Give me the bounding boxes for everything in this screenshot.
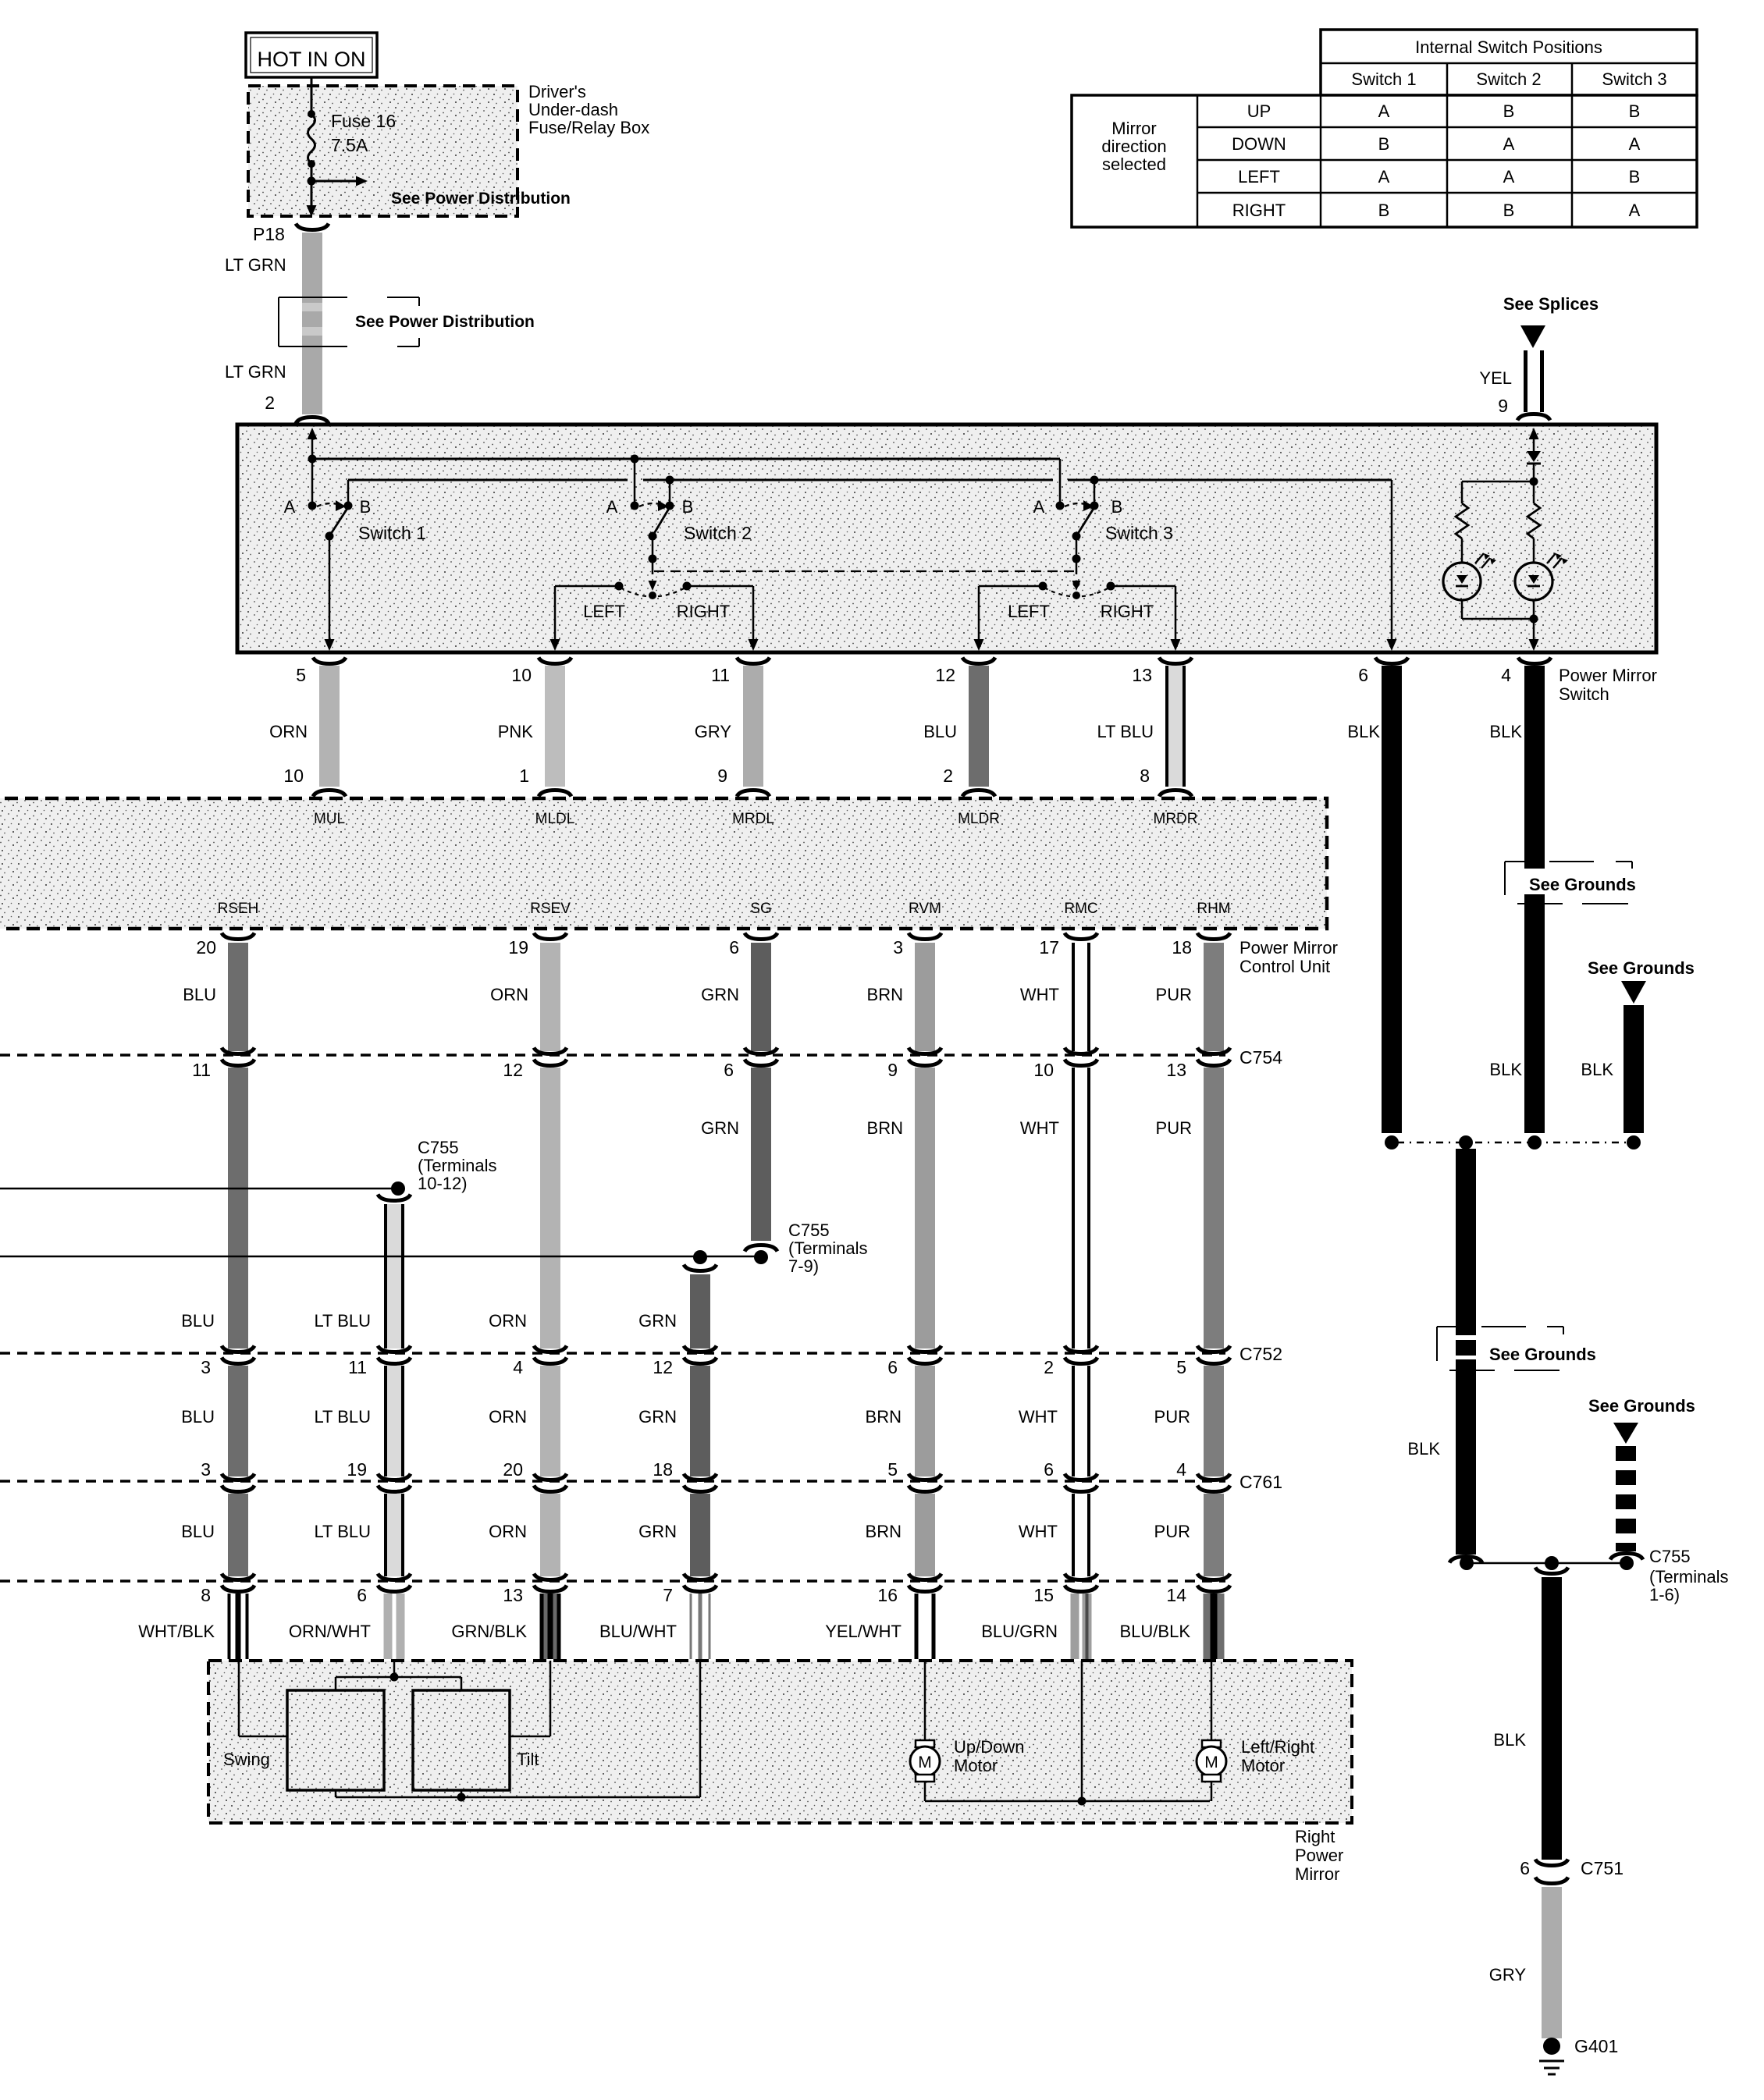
svg-text:DOWN: DOWN xyxy=(1232,134,1286,154)
svg-text:Switch 2: Switch 2 xyxy=(684,523,752,543)
node bridge xyxy=(390,1673,399,1682)
svg-text:A: A xyxy=(284,497,296,517)
connector symbol ground lead start xyxy=(1535,1568,1568,1574)
svg-text:GRY: GRY xyxy=(695,722,732,741)
wire ORN segment C761 to mirror connector xyxy=(540,1494,560,1576)
connector C754 lower symbol at 305 xyxy=(222,1060,254,1066)
wire GRN control unit output pin 6 xyxy=(751,943,771,1051)
svg-text:Internal Switch Positions: Internal Switch Positions xyxy=(1415,37,1602,57)
node below fuse xyxy=(308,160,315,168)
switch 1 contact B xyxy=(344,502,353,510)
svg-text:18: 18 xyxy=(653,1459,673,1480)
svg-text:Driver's: Driver's xyxy=(528,82,586,101)
wire PNK pin 10 to control unit pin 1 xyxy=(545,666,565,787)
wire PUR segment C752 to C761 xyxy=(1204,1366,1224,1476)
connector C752 lower symbol at 1185 xyxy=(909,1358,941,1364)
resistor R2 xyxy=(1533,481,1535,503)
up/down motor M1 xyxy=(916,1740,934,1747)
pin 12 connector symbol xyxy=(962,658,995,664)
switch 2 contact A xyxy=(631,502,639,510)
svg-text:BLK: BLK xyxy=(1347,722,1380,741)
mirror connector upper symbol at 705 xyxy=(534,1574,567,1580)
svg-text:13: 13 xyxy=(1132,665,1152,685)
mirror connector lower symbol at 1555 xyxy=(1197,1586,1230,1592)
connector C754 upper symbol at 705 xyxy=(534,1048,567,1054)
connector C761 lower symbol at 305 xyxy=(222,1486,254,1492)
svg-text:BLU: BLU xyxy=(181,1311,215,1331)
control unit pin 19 connector symbol xyxy=(534,933,567,940)
svg-text:Mirror: Mirror xyxy=(1111,119,1156,138)
connector symbol P18 xyxy=(296,224,329,230)
svg-text:Tilt: Tilt xyxy=(517,1750,539,1769)
svg-text:14: 14 xyxy=(1166,1585,1186,1605)
wire WHT/BLK into right power mirror xyxy=(228,1594,249,1659)
connector C754 upper symbol at 975 xyxy=(745,1048,777,1054)
wire BLK dashed from ground 4 xyxy=(1616,1446,1636,1461)
mirror connector upper symbol at 1185 xyxy=(909,1574,941,1580)
svg-text:Switch 3: Switch 3 xyxy=(1602,69,1666,89)
svg-text:10-12): 10-12) xyxy=(418,1174,468,1193)
svg-text:18: 18 xyxy=(1172,937,1192,958)
connector C752 lower symbol at 705 xyxy=(534,1358,567,1364)
HOT IN ON power label box xyxy=(246,33,377,77)
connector symbol control unit pin 1 xyxy=(539,791,571,797)
svg-text:12: 12 xyxy=(503,1060,523,1080)
svg-text:RIGHT: RIGHT xyxy=(1101,602,1154,621)
switch 2 wiper arrow xyxy=(649,581,657,591)
svg-text:9: 9 xyxy=(1498,396,1508,416)
svg-text:A: A xyxy=(1378,101,1390,121)
connector C752 upper symbol at 705 xyxy=(534,1346,567,1352)
connector C752 lower symbol at 305 xyxy=(222,1358,254,1364)
node C755 10-12 xyxy=(391,1181,405,1196)
wire lamp return to pin 4 xyxy=(1533,600,1535,641)
svg-text:7: 7 xyxy=(663,1585,673,1605)
svg-text:6: 6 xyxy=(724,1060,734,1080)
svg-text:15: 15 xyxy=(1033,1585,1054,1605)
svg-text:See Power Distribution: See Power Distribution xyxy=(355,313,535,331)
svg-text:5: 5 xyxy=(296,665,306,685)
wire BLU/BLK into right power mirror xyxy=(1204,1594,1225,1659)
svg-text:4: 4 xyxy=(1176,1459,1186,1480)
wire ORN/WHT inside mirror to pot bridge xyxy=(393,1661,396,1677)
svg-text:6: 6 xyxy=(357,1585,367,1605)
LED right emission arrows xyxy=(1547,553,1562,568)
svg-text:Motor: Motor xyxy=(1241,1756,1285,1775)
svg-text:UP: UP xyxy=(1247,101,1271,121)
entry arrow pin 2 xyxy=(308,428,318,439)
wire LT BLU from C755 10-12 xyxy=(384,1204,404,1348)
svg-text:YEL/WHT: YEL/WHT xyxy=(825,1622,902,1641)
svg-text:See Power Distribution: See Power Distribution xyxy=(391,190,571,208)
pot top bridge wire xyxy=(336,1676,461,1679)
control unit pin 18 connector symbol xyxy=(1197,933,1230,940)
connector C752 lower symbol at 1385 xyxy=(1065,1358,1097,1364)
wire to switch2 A xyxy=(634,459,636,503)
diode D1 xyxy=(1527,451,1541,462)
wire WHT segment C752 to C761 xyxy=(1072,1366,1090,1476)
svg-text:C755: C755 xyxy=(418,1138,459,1157)
svg-text:GRN: GRN xyxy=(638,1407,677,1427)
tilt potentiometer xyxy=(413,1690,510,1790)
bus line from pin 2 xyxy=(312,458,1060,460)
connector C751 upper symbol xyxy=(1535,1860,1568,1866)
svg-text:A: A xyxy=(1629,201,1641,220)
switch 3 RIGHT wire to pin 13 xyxy=(1111,585,1175,588)
svg-text:WHT: WHT xyxy=(1019,1522,1058,1541)
LED left emission arrows xyxy=(1475,553,1490,568)
connector C752 upper symbol at 897 xyxy=(684,1346,717,1352)
connector line C761 xyxy=(0,1480,1225,1482)
swing potentiometer xyxy=(287,1690,384,1790)
svg-text:20: 20 xyxy=(196,937,216,958)
svg-text:BLK: BLK xyxy=(1581,1060,1613,1079)
Driver's Under-dash Fuse/Relay Box (dashed) xyxy=(248,86,517,216)
svg-text:4: 4 xyxy=(513,1357,523,1377)
LED lamp left xyxy=(1443,563,1481,600)
wire PUR segment C754 to C752 xyxy=(1204,1068,1224,1348)
svg-text:BLK: BLK xyxy=(1493,1730,1526,1750)
switch 2 RIGHT wire to pin 11 xyxy=(687,585,753,588)
svg-text:GRN/BLK: GRN/BLK xyxy=(451,1622,527,1641)
wire PUR control unit output pin 18 xyxy=(1204,943,1224,1051)
mirror connector lower symbol at 705 xyxy=(534,1586,567,1592)
ground G401 terminal xyxy=(1543,2038,1560,2055)
svg-text:3: 3 xyxy=(201,1357,211,1377)
wire PUR segment C761 to mirror connector xyxy=(1204,1494,1224,1576)
svg-text:LT GRN: LT GRN xyxy=(225,362,286,382)
connector symbol control unit pin 9 xyxy=(737,791,770,797)
svg-text:6: 6 xyxy=(729,937,739,958)
svg-text:LT BLU: LT BLU xyxy=(1097,722,1154,741)
wire GRN/BLK inside mirror to tilt pot xyxy=(549,1661,552,1736)
splice line C755 terminals 10-12 xyxy=(0,1188,398,1190)
svg-text:See Grounds: See Grounds xyxy=(1529,875,1636,894)
svg-text:19: 19 xyxy=(508,937,528,958)
svg-text:3: 3 xyxy=(893,937,903,958)
node new GRN wire xyxy=(693,1250,707,1264)
svg-text:A: A xyxy=(1503,167,1515,187)
svg-text:6: 6 xyxy=(1044,1459,1054,1480)
svg-text:See Grounds: See Grounds xyxy=(1588,958,1695,978)
svg-text:Power Mirror: Power Mirror xyxy=(1559,666,1657,685)
svg-text:YEL: YEL xyxy=(1479,368,1512,388)
switch 1 contact A xyxy=(308,502,317,510)
connector C761 lower symbol at 1385 xyxy=(1065,1486,1097,1492)
connector C751 lower symbol xyxy=(1535,1878,1568,1884)
wire GRY pin 11 to control unit pin 9 xyxy=(743,666,763,787)
connector C754 lower symbol SG wire xyxy=(745,1060,777,1066)
node switch3 B feed xyxy=(1090,476,1099,485)
svg-text:BRN: BRN xyxy=(866,1407,902,1427)
switch 1 output wire to pin 5 xyxy=(329,536,331,641)
ground arrow symbol 2 xyxy=(1621,981,1646,1004)
svg-text:20: 20 xyxy=(503,1459,523,1480)
svg-text:See Splices: See Splices xyxy=(1503,294,1599,314)
node C755 1-6 mid xyxy=(1545,1556,1559,1570)
wire from HOT IN ON into fuse box xyxy=(311,77,313,114)
connector C761 upper symbol at 1385 xyxy=(1065,1474,1097,1480)
wire BLU/BLK inside mirror to left/right motor xyxy=(1211,1661,1213,1742)
splice line C755 terminals 7-9 xyxy=(0,1256,761,1258)
svg-text:Switch: Switch xyxy=(1559,684,1609,704)
node C755 1-6 right xyxy=(1620,1556,1634,1570)
splice line C755 terminals 1-6 xyxy=(1467,1562,1627,1565)
svg-text:BLU: BLU xyxy=(181,1522,215,1541)
svg-text:A: A xyxy=(606,497,618,517)
svg-text:8: 8 xyxy=(201,1585,211,1605)
svg-text:M: M xyxy=(918,1754,932,1771)
svg-text:ORN/WHT: ORN/WHT xyxy=(289,1622,371,1641)
wire ORN segment C754 to C752 xyxy=(540,1068,560,1348)
node switch2 A feed xyxy=(631,455,639,464)
connector C752 upper symbol at 1185 xyxy=(909,1346,941,1352)
svg-text:10: 10 xyxy=(511,665,532,685)
svg-text:MRDR: MRDR xyxy=(1154,811,1198,827)
svg-text:B: B xyxy=(1629,101,1641,121)
svg-text:13: 13 xyxy=(503,1585,523,1605)
connector C752 upper symbol at 1385 xyxy=(1065,1346,1097,1352)
svg-text:GRN: GRN xyxy=(638,1522,677,1541)
connector C754 upper symbol at 305 xyxy=(222,1048,254,1054)
wire GRN SG segment to C755 terminals 7-9 xyxy=(751,1068,771,1241)
svg-text:6: 6 xyxy=(887,1357,898,1377)
connector line C754 xyxy=(0,1054,1225,1056)
svg-text:BLU: BLU xyxy=(923,722,957,741)
svg-text:M: M xyxy=(1204,1754,1218,1771)
connector C752 lower symbol at 897 xyxy=(684,1358,717,1364)
wire BLU/GRN inside mirror to motor return xyxy=(1081,1661,1083,1801)
node switch2 B feed xyxy=(666,476,674,485)
svg-text:9: 9 xyxy=(717,766,727,786)
connector symbol GRN wire end xyxy=(745,1245,777,1252)
pin 13 connector symbol xyxy=(1159,658,1192,664)
switch 3 wiper arrow xyxy=(1072,581,1081,591)
svg-text:See Grounds: See Grounds xyxy=(1588,1396,1695,1416)
connector C752 lower symbol at 505 xyxy=(378,1358,411,1364)
svg-text:2: 2 xyxy=(943,766,953,786)
wire BRN segment C761 to mirror connector xyxy=(915,1494,935,1576)
pin 10 connector symbol xyxy=(539,658,571,664)
switch 2 LEFT wire to pin 10 xyxy=(555,585,619,588)
svg-text:10: 10 xyxy=(283,766,304,786)
wire WHT/BLK inside mirror to swing pot xyxy=(238,1661,240,1736)
wire to switch1 A xyxy=(311,459,314,503)
pin 4 connector symbol xyxy=(1518,658,1551,664)
wire BLU segment C752 to C761 xyxy=(228,1366,248,1476)
wire LTBLU segment C761 to mirror connector xyxy=(384,1494,404,1576)
svg-text:(Terminals: (Terminals xyxy=(1649,1567,1728,1587)
wire BLU segment C754 to C752 xyxy=(228,1068,248,1348)
wire ORN pin 5 to control unit pin 10 xyxy=(319,666,340,787)
svg-text:2: 2 xyxy=(265,393,275,413)
svg-text:5: 5 xyxy=(1176,1357,1186,1377)
svg-text:C754: C754 xyxy=(1239,1047,1282,1068)
node SG wire end xyxy=(754,1250,768,1264)
connector C754 lower symbol at 1555 xyxy=(1197,1060,1230,1066)
svg-text:SG: SG xyxy=(750,901,771,917)
connector C761 upper symbol at 705 xyxy=(534,1474,567,1480)
svg-text:B: B xyxy=(1503,101,1515,121)
svg-text:1: 1 xyxy=(519,766,529,786)
svg-text:BLU/BLK: BLU/BLK xyxy=(1120,1622,1191,1641)
svg-text:A: A xyxy=(1033,497,1045,517)
wire BLK pin 4 ground lead xyxy=(1524,666,1545,1133)
fuse F16 7.5A element xyxy=(308,114,315,164)
mirror connector lower symbol at 505 xyxy=(378,1586,411,1592)
svg-text:16: 16 xyxy=(877,1585,898,1605)
connector C754 upper symbol at 1385 xyxy=(1065,1048,1097,1054)
node C755 1-6 left xyxy=(1460,1556,1474,1570)
svg-text:PUR: PUR xyxy=(1154,1407,1190,1427)
right power mirror box (dashed) xyxy=(208,1661,1352,1823)
splice arrow symbol xyxy=(1520,325,1545,348)
svg-text:LEFT: LEFT xyxy=(583,602,625,621)
svg-text:11: 11 xyxy=(711,665,730,685)
ground symbol G401 xyxy=(1539,2060,1564,2063)
connector C752 upper symbol at 505 xyxy=(378,1346,411,1352)
connector C752 upper symbol at 1555 xyxy=(1197,1346,1230,1352)
svg-text:PUR: PUR xyxy=(1156,1118,1192,1138)
switch 2 contact B xyxy=(666,502,674,510)
connector C761 lower symbol at 505 xyxy=(378,1486,411,1492)
connector C761 lower symbol at 705 xyxy=(534,1486,567,1492)
svg-text:B: B xyxy=(1629,167,1641,187)
wire ORN/WHT into right power mirror xyxy=(384,1594,405,1659)
wire bus to pin 6 exit xyxy=(1391,480,1393,641)
wire to switch3 A xyxy=(1059,459,1062,503)
svg-text:3: 3 xyxy=(201,1459,211,1480)
mirror connector upper symbol at 1555 xyxy=(1197,1574,1230,1580)
wire below left LED xyxy=(1461,600,1463,619)
svg-text:Power Mirror: Power Mirror xyxy=(1239,938,1338,958)
svg-text:Control Unit: Control Unit xyxy=(1239,957,1330,976)
svg-text:LEFT: LEFT xyxy=(1008,602,1050,621)
connector C761 lower symbol at 1555 xyxy=(1197,1486,1230,1492)
svg-text:Fuse/Relay Box: Fuse/Relay Box xyxy=(528,118,649,137)
switch 2 LEFT contact xyxy=(615,582,624,591)
connector symbol GRN start xyxy=(684,1265,717,1271)
svg-text:A: A xyxy=(1378,167,1390,187)
node ground bus 2 xyxy=(1459,1135,1473,1149)
node ground bus 3 xyxy=(1527,1135,1542,1149)
motor return wire xyxy=(924,1782,926,1801)
svg-text:LEFT: LEFT xyxy=(1238,167,1280,187)
svg-text:P18: P18 xyxy=(253,224,285,244)
svg-text:C755: C755 xyxy=(1649,1547,1691,1566)
pin 5 connector symbol xyxy=(313,658,346,664)
svg-text:LT BLU: LT BLU xyxy=(314,1311,371,1331)
connector symbol pin 2 into switch xyxy=(296,418,329,424)
switch 1 throw arrow xyxy=(317,503,337,506)
svg-text:RSEV: RSEV xyxy=(530,901,571,917)
svg-text:7-9): 7-9) xyxy=(788,1256,819,1276)
svg-text:13: 13 xyxy=(1166,1060,1186,1080)
svg-text:RIGHT: RIGHT xyxy=(677,602,730,621)
svg-text:MUL: MUL xyxy=(314,811,345,827)
svg-text:BLU/WHT: BLU/WHT xyxy=(599,1622,677,1641)
wire BRN segment C754 to C752 xyxy=(915,1068,935,1348)
svg-text:B: B xyxy=(1111,497,1123,517)
branch wire to left lamp xyxy=(1462,481,1534,483)
svg-text:Switch 3: Switch 3 xyxy=(1105,523,1173,543)
table Internal Switch Positions xyxy=(1321,30,1697,95)
svg-text:direction: direction xyxy=(1101,137,1166,156)
switch 3 contact A xyxy=(1056,502,1065,510)
wire YEL/WHT inside mirror to up/down motor xyxy=(924,1661,926,1742)
connector C752 lower symbol at 1555 xyxy=(1197,1358,1230,1364)
left/right motor M2 xyxy=(1202,1740,1221,1747)
svg-text:Right: Right xyxy=(1295,1827,1335,1846)
connector C761 upper symbol at 305 xyxy=(222,1474,254,1480)
node above fuse xyxy=(308,110,315,118)
svg-text:See Grounds: See Grounds xyxy=(1489,1345,1596,1364)
svg-text:Motor: Motor xyxy=(954,1756,998,1775)
connector C754 lower symbol at 705 xyxy=(534,1060,567,1066)
svg-text:C761: C761 xyxy=(1239,1472,1282,1492)
svg-text:Mirror: Mirror xyxy=(1295,1864,1339,1884)
See Grounds bracket on pin4 BLK wire xyxy=(1523,869,1546,894)
svg-text:Swing: Swing xyxy=(223,1750,270,1769)
mirror connector lower symbol at 1385 xyxy=(1065,1586,1097,1592)
node illumination branch xyxy=(1530,478,1538,486)
wire BLK pin 6 ground lead xyxy=(1382,666,1402,1133)
LED lamp right xyxy=(1515,563,1552,600)
wire ORN segment C752 to C761 xyxy=(540,1366,560,1476)
wire BRN segment C752 to C761 xyxy=(915,1366,935,1476)
wire BLU/WHT into right power mirror xyxy=(690,1594,711,1659)
connector C761 upper symbol at 1185 xyxy=(909,1474,941,1480)
switch 3 LEFT wire to pin 12 xyxy=(979,585,1043,588)
connector symbol pin 9 xyxy=(1517,414,1550,421)
svg-text:Left/Right: Left/Right xyxy=(1241,1737,1314,1757)
switch 3 lever xyxy=(1076,507,1094,536)
svg-text:ORN: ORN xyxy=(269,722,308,741)
svg-text:MLDL: MLDL xyxy=(535,811,575,827)
control unit pin 6 connector symbol xyxy=(745,933,777,940)
svg-text:RIGHT: RIGHT xyxy=(1232,201,1286,220)
svg-text:1-6): 1-6) xyxy=(1649,1585,1680,1604)
bus line B contacts to pin 6 xyxy=(348,479,628,481)
svg-text:RHM: RHM xyxy=(1197,901,1230,917)
control unit pin 20 connector symbol xyxy=(222,933,254,940)
switch 3 LEFT contact xyxy=(1039,582,1047,591)
svg-text:BLK: BLK xyxy=(1489,722,1522,741)
svg-text:selected: selected xyxy=(1102,155,1166,174)
wire WHT segment C754 to C752 xyxy=(1072,1068,1090,1348)
svg-text:RVM: RVM xyxy=(909,901,941,917)
entry arrow pin 9 illumination xyxy=(1529,428,1539,439)
mirror connector upper symbol at 897 xyxy=(684,1574,717,1580)
svg-text:5: 5 xyxy=(887,1459,898,1480)
svg-text:17: 17 xyxy=(1039,937,1059,958)
svg-text:RSEH: RSEH xyxy=(218,901,259,917)
switch 3 contact B xyxy=(1090,502,1099,510)
svg-text:HOT IN ON: HOT IN ON xyxy=(257,48,365,71)
wire BLU/WHT inside mirror to pot returns xyxy=(699,1661,702,1797)
connector C754 lower symbol at 1185 xyxy=(909,1060,941,1066)
svg-text:GRN: GRN xyxy=(638,1311,677,1331)
connector C754 upper symbol at 1185 xyxy=(909,1048,941,1054)
wire YEL xyxy=(1524,350,1544,412)
mirror connector lower symbol at 305 xyxy=(222,1586,254,1592)
switch 1 lever xyxy=(329,507,348,536)
svg-text:WHT: WHT xyxy=(1020,985,1059,1004)
svg-text:2: 2 xyxy=(1044,1357,1054,1377)
svg-text:ORN: ORN xyxy=(489,1522,527,1541)
svg-text:GRY: GRY xyxy=(1489,1965,1527,1985)
svg-text:BLU: BLU xyxy=(181,1407,215,1427)
